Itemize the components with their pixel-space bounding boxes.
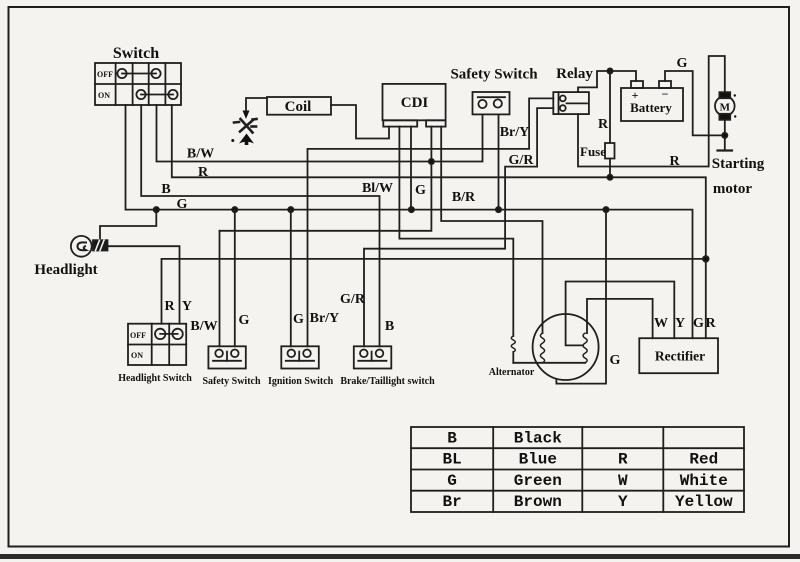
headlight switch box (128, 324, 186, 365)
wire headlight feed (100, 210, 156, 240)
wire alternator common (513, 362, 585, 364)
svg-text:G: G (693, 316, 704, 331)
svg-text:Y: Y (182, 299, 192, 314)
svg-text:Brake/Taillight switch: Brake/Taillight switch (340, 376, 435, 387)
svg-text:B/W: B/W (190, 319, 217, 334)
wire safety B/W (219, 231, 221, 346)
wire G from switch (126, 105, 693, 338)
alternator left coil (540, 333, 544, 363)
wire coil to CDI (331, 105, 389, 139)
headlight socket (hatched) (93, 240, 108, 250)
svg-text:Safety Switch: Safety Switch (202, 376, 260, 387)
wire CDI pin3 to G (410, 127, 412, 210)
svg-text:B: B (385, 319, 394, 334)
svg-text:Br/Y: Br/Y (310, 311, 340, 326)
svg-text:Br/Y: Br/Y (500, 125, 530, 140)
svg-text:G/R: G/R (509, 153, 535, 168)
wire brake G/R (364, 108, 553, 346)
svg-text:Relay: Relay (556, 66, 593, 82)
color code table (411, 427, 744, 512)
svg-text:Alternator: Alternator (489, 367, 535, 378)
wire safety S1 right to G (498, 114, 500, 209)
svg-text:G: G (677, 56, 688, 71)
battery BT1 box (621, 81, 683, 121)
svg-text:B: B (447, 430, 457, 448)
wire alternator center tap W (566, 282, 675, 346)
wire alternator frame G (556, 210, 606, 384)
wire ignition G (290, 210, 292, 347)
wire CDI pin4 to kill (220, 127, 432, 231)
CDI U1 box (383, 84, 446, 127)
svg-text:B/R: B/R (452, 190, 476, 205)
spark plug tip (239, 134, 254, 144)
alternator G1 (533, 314, 599, 380)
svg-text:Switch: Switch (113, 45, 159, 62)
svg-text:Black: Black (514, 430, 562, 448)
ground (718, 149, 733, 151)
svg-text:OFF: OFF (97, 70, 113, 79)
node motor ground (722, 133, 727, 138)
svg-text:G/R: G/R (340, 292, 366, 307)
wire B from switch (141, 105, 379, 346)
svg-text:B/W: B/W (187, 147, 214, 162)
svg-text:R: R (669, 154, 680, 169)
node fuse bottom (607, 175, 612, 180)
svg-text:−: − (662, 87, 669, 101)
node CDI B/W (429, 159, 434, 164)
wire ignition Br/Y (308, 98, 554, 346)
svg-text:Bl/W: Bl/W (362, 181, 393, 196)
svg-text:OFF: OFF (130, 331, 146, 340)
bottom scan edge (0, 554, 800, 559)
svg-text:White: White (680, 472, 728, 490)
svg-text:Headlight Switch: Headlight Switch (118, 373, 192, 384)
wire motor to ground (724, 120, 726, 151)
wire B/W from switch (157, 105, 483, 162)
svg-text:Red: Red (689, 451, 718, 469)
coil left wire with arrow (246, 98, 267, 111)
svg-text:BL: BL (442, 451, 461, 469)
node G-ignition (288, 207, 293, 212)
wire CDI pin2 to pickup (399, 127, 513, 336)
fuse F1 (605, 143, 615, 159)
svg-text:R: R (618, 451, 628, 469)
svg-text:CDI: CDI (401, 95, 429, 111)
svg-text:G: G (177, 197, 188, 212)
svg-text:Headlight: Headlight (34, 262, 97, 278)
svg-text:W: W (654, 316, 668, 331)
node G-headlight (154, 207, 159, 212)
ignition switch box (281, 346, 319, 368)
svg-text:R: R (164, 299, 175, 314)
svg-text:G: G (293, 312, 304, 327)
node G-safetyswitch-top (496, 207, 501, 212)
svg-text:Rectifier: Rectifier (655, 349, 705, 364)
wire fuse (609, 71, 611, 177)
svg-text:Y: Y (675, 316, 685, 331)
svg-text:motor: motor (713, 181, 752, 197)
svg-text:Brown: Brown (514, 493, 562, 511)
svg-text:Coil: Coil (285, 99, 312, 115)
alternator right coil (583, 333, 587, 363)
rectifier D1 box (639, 338, 718, 373)
node R-rectifier (703, 256, 709, 262)
svg-text:G: G (415, 183, 426, 198)
svg-text:ON: ON (98, 91, 110, 100)
svg-text:R: R (598, 117, 609, 132)
relay K1 box (553, 92, 589, 114)
headlight switch contacts (155, 329, 183, 339)
wire alternator Y (587, 299, 653, 338)
wire battery minus to motor (665, 71, 725, 135)
node G-safety (232, 207, 237, 212)
svg-text:Ignition Switch: Ignition Switch (268, 376, 334, 387)
switch SW1 box (95, 63, 181, 105)
spark plug spark (234, 119, 257, 133)
svg-text:Safety Switch: Safety Switch (450, 67, 538, 83)
alternator pickup coil (511, 336, 515, 363)
wire relay top to battery plus (578, 71, 636, 92)
wire relay to starting motor (578, 56, 725, 167)
svg-text:G: G (239, 313, 250, 328)
svg-text:G: G (610, 353, 621, 368)
svg-text:Fuse: Fuse (580, 144, 606, 159)
svg-text:Y: Y (618, 493, 628, 511)
headlight lamp (71, 236, 92, 257)
svg-text:M: M (720, 102, 731, 114)
svg-text:ON: ON (131, 351, 143, 360)
svg-text:B: B (161, 182, 170, 197)
svg-text:Green: Green (514, 472, 562, 490)
node fuse top (607, 68, 612, 73)
switch OFF contacts (117, 69, 160, 78)
svg-text:R: R (705, 316, 716, 331)
coil L1 box (267, 97, 331, 115)
svg-text:Br: Br (442, 493, 461, 511)
svg-text:Starting: Starting (712, 156, 765, 172)
svg-text:Battery: Battery (630, 100, 672, 115)
switch ON contacts (136, 90, 177, 99)
safety switch S1 box (473, 92, 510, 114)
wire R feed long (162, 259, 706, 324)
svg-text:G: G (447, 472, 457, 490)
wire CDI pin5 to alternator (441, 127, 542, 334)
wire safety G (234, 210, 236, 347)
brake taillight switch box (354, 346, 392, 368)
wire headlight to Y (108, 246, 180, 324)
node G-alternator (603, 207, 608, 212)
starting motor M1 (715, 92, 736, 120)
node G-CDI (409, 207, 414, 212)
wire R from switch (172, 105, 706, 338)
svg-text:W: W (618, 472, 628, 490)
svg-text:R: R (198, 165, 209, 180)
svg-text:Yellow: Yellow (675, 493, 733, 511)
svg-text:Blue: Blue (519, 451, 557, 469)
safety switch S2 box (208, 346, 245, 368)
